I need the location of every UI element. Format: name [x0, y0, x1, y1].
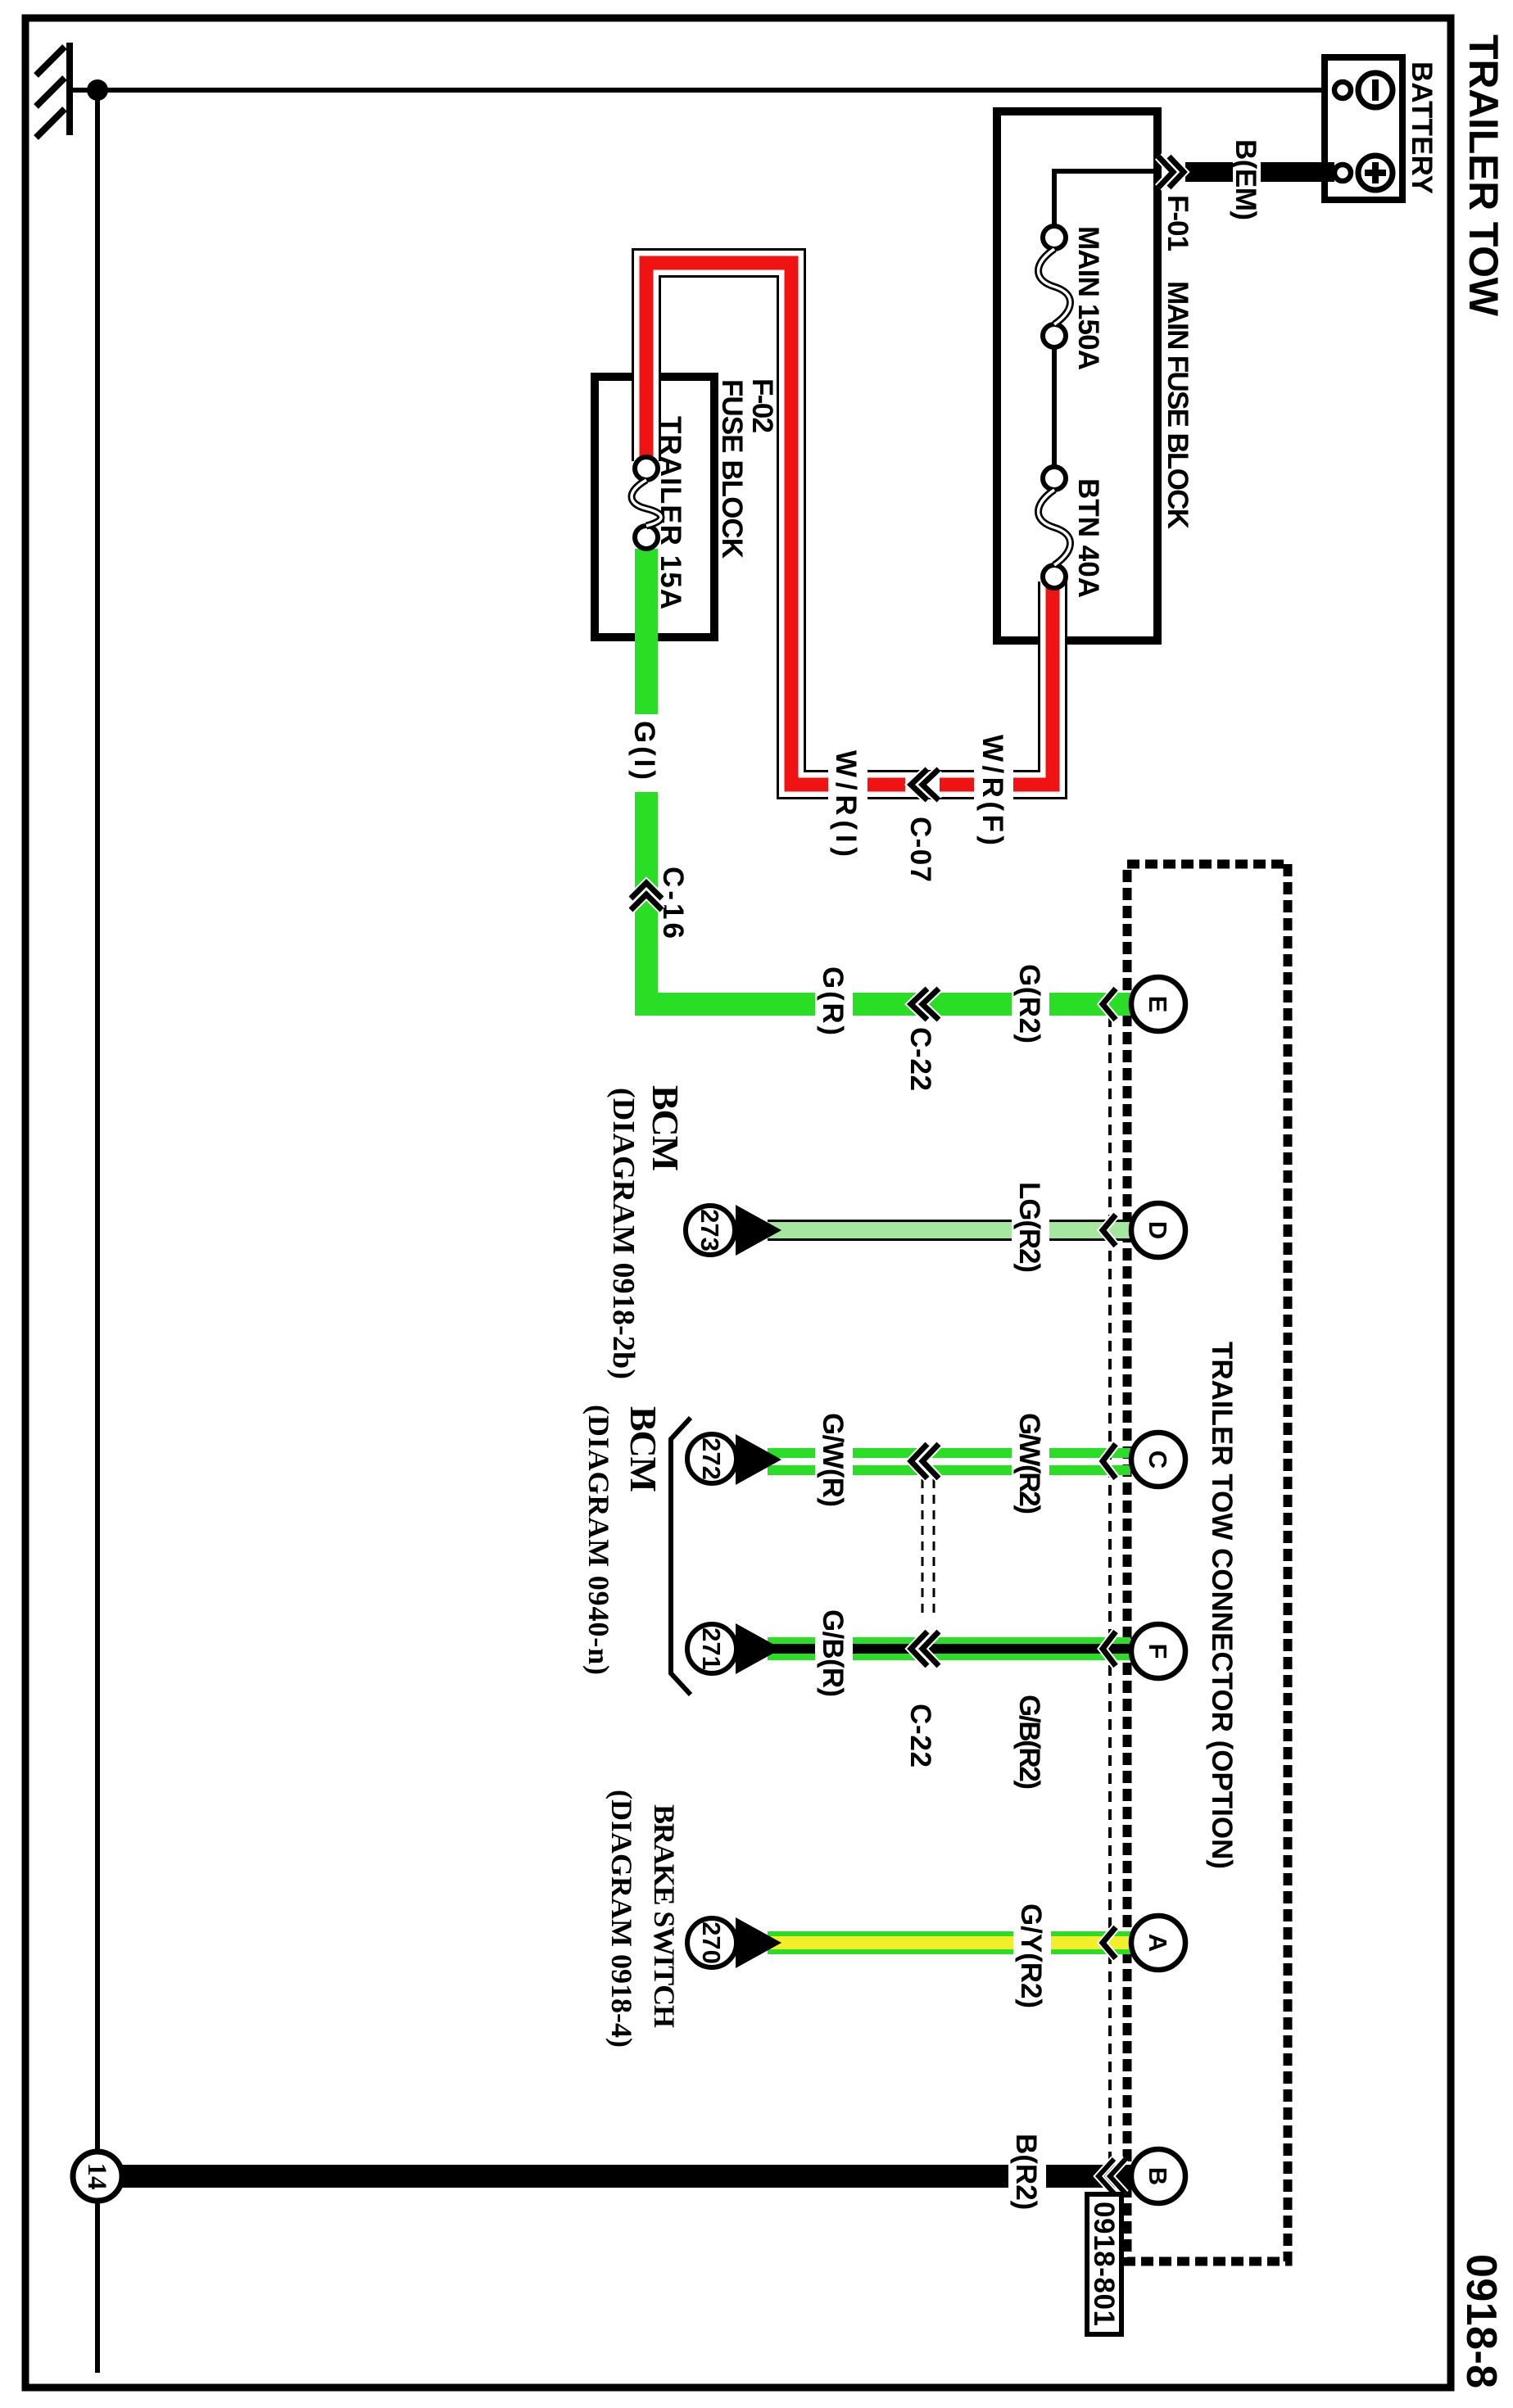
svg-text:BTN 40A: BTN 40A — [1072, 478, 1104, 598]
svg-text:(DIAGRAM 0918-4): (DIAGRAM 0918-4) — [605, 1790, 638, 2048]
svg-text:F: F — [1144, 1644, 1172, 1659]
svg-text:271: 271 — [697, 1627, 726, 1670]
svg-text:TRAILER TOW CONNECTOR (OPTION): TRAILER TOW CONNECTOR (OPTION) — [1206, 1342, 1238, 1869]
svg-text:0918-8: 0918-8 — [1457, 2254, 1505, 2388]
svg-text:BATTERY: BATTERY — [1406, 61, 1438, 194]
svg-text:14: 14 — [82, 2163, 111, 2190]
svg-text:W/R(F): W/R(F) — [976, 735, 1008, 845]
svg-text:(DIAGRAM 0940-n): (DIAGRAM 0940-n) — [582, 1405, 615, 1675]
svg-text:C-16: C-16 — [657, 867, 689, 939]
svg-text:MAIN FUSE BLOCK: MAIN FUSE BLOCK — [1162, 281, 1194, 529]
svg-text:F-02: F-02 — [746, 378, 778, 433]
svg-text:G(I): G(I) — [628, 721, 660, 780]
svg-text:C-07: C-07 — [904, 817, 936, 882]
svg-text:G/W(R2): G/W(R2) — [1013, 1413, 1045, 1514]
svg-text:MAIN 150A: MAIN 150A — [1072, 226, 1104, 370]
svg-text:BCM: BCM — [645, 1085, 686, 1171]
svg-text:E: E — [1144, 996, 1172, 1013]
svg-text:G/W(R): G/W(R) — [817, 1413, 849, 1507]
svg-text:FUSE BLOCK: FUSE BLOCK — [716, 379, 748, 559]
svg-text:0918-801: 0918-801 — [1088, 2202, 1120, 2326]
svg-text:LG(R2): LG(R2) — [1013, 1182, 1045, 1273]
svg-text:G/Y(R2): G/Y(R2) — [1015, 1903, 1047, 2008]
svg-text:B(R2): B(R2) — [1010, 2134, 1042, 2210]
svg-text:C-22: C-22 — [904, 1027, 936, 1091]
svg-text:270: 270 — [697, 1921, 726, 1964]
svg-text:C-22: C-22 — [904, 1704, 936, 1768]
svg-text:BRAKE SWITCH: BRAKE SWITCH — [648, 1804, 681, 2028]
svg-text:G/B(R2): G/B(R2) — [1013, 1695, 1045, 1790]
svg-text:(DIAGRAM 0918-2b): (DIAGRAM 0918-2b) — [606, 1088, 641, 1379]
svg-text:F-01: F-01 — [1162, 195, 1194, 251]
svg-text:W/R(I): W/R(I) — [830, 750, 862, 857]
svg-text:TRAILER TOW: TRAILER TOW — [1461, 34, 1506, 317]
svg-text:BCM: BCM — [623, 1406, 664, 1492]
svg-text:273: 273 — [695, 1209, 724, 1252]
svg-text:G(R2): G(R2) — [1013, 964, 1045, 1043]
svg-text:D: D — [1144, 1221, 1172, 1239]
svg-text:B(EM): B(EM) — [1230, 139, 1262, 220]
svg-text:G/B(R): G/B(R) — [817, 1609, 849, 1697]
svg-text:272: 272 — [697, 1437, 726, 1480]
svg-text:C: C — [1144, 1451, 1172, 1469]
svg-text:A: A — [1144, 1934, 1172, 1952]
svg-text:B: B — [1144, 2167, 1172, 2185]
